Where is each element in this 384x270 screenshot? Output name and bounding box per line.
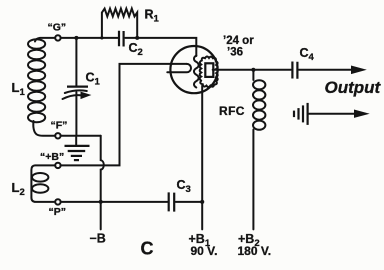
- coil L2: [31, 165, 55, 202]
- grid (wavy): [194, 56, 199, 88]
- wire C3 to B1: [176, 201, 203, 203]
- junction R1 left: [100, 36, 103, 39]
- wire cathode to +B tap: [61, 64, 172, 165]
- wire ground arrow: [309, 110, 370, 118]
- svg-text:’36: ’36: [227, 46, 243, 58]
- svg-text:90 V.: 90 V.: [191, 244, 218, 258]
- terminal G: [55, 35, 60, 40]
- junction RFC tap: [251, 68, 255, 72]
- coil L1: [28, 38, 55, 136]
- svg-text:C: C: [141, 239, 154, 259]
- terminal +B: [55, 163, 60, 168]
- tube envelope U1: [170, 46, 217, 93]
- plate: [205, 63, 213, 77]
- ground: [65, 137, 90, 160]
- cathode heater: [167, 64, 191, 72]
- svg-text:RFC: RFC: [219, 104, 245, 118]
- svg-text:“F”: “F”: [51, 119, 68, 131]
- svg-text:180 V.: 180 V.: [238, 244, 272, 258]
- junction -B tap: [99, 200, 103, 204]
- ground output terminal: [294, 103, 308, 125]
- wire output arrow: [299, 66, 367, 75]
- svg-text:“G”: “G”: [48, 22, 67, 34]
- wire F hop to -B: [101, 136, 104, 230]
- svg-text:Output: Output: [325, 78, 382, 97]
- resistor R1: [102, 9, 137, 38]
- wire grid bus: [61, 38, 197, 56]
- junction B1: [200, 200, 204, 204]
- wire F line: [61, 135, 101, 137]
- capacitor C3: [169, 192, 175, 211]
- wire screen to +B1: [201, 86, 203, 230]
- wire plate output: [213, 69, 291, 71]
- wire P line: [61, 201, 168, 203]
- junction R1 right: [135, 36, 139, 40]
- svg-text:“P”: “P”: [49, 206, 67, 218]
- screen grid: [200, 57, 218, 88]
- svg-text:−B: −B: [90, 232, 106, 246]
- choke RFC: [253, 70, 265, 230]
- svg-text:“+B”: “+B”: [40, 151, 64, 163]
- capacitor C1 variable: [63, 39, 92, 136]
- terminal P: [55, 199, 60, 204]
- junction C1 tap: [74, 36, 78, 40]
- terminal F: [55, 133, 60, 138]
- capacitor C2: [119, 31, 124, 47]
- svg-text:’24 or: ’24 or: [223, 35, 254, 47]
- capacitor C4: [292, 62, 297, 79]
